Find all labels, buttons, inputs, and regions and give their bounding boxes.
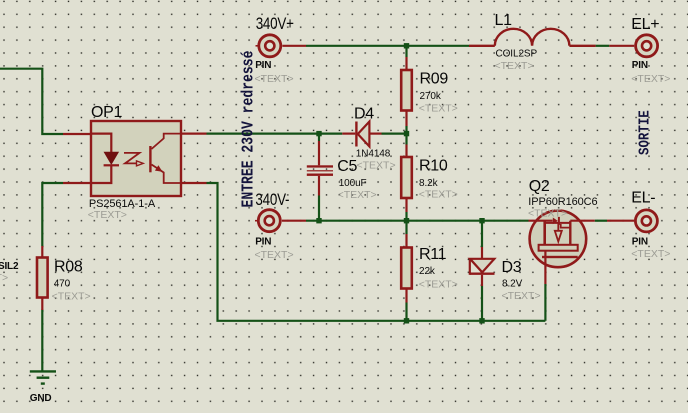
- junction node 340V- / R10 / R11: [404, 218, 409, 223]
- wire OP1 pin4 to node D4/C5: [207, 133, 343, 135]
- svg-text:270k: 270k: [420, 91, 442, 102]
- junction node top rail / R09: [404, 43, 409, 48]
- svg-text:1N4148: 1N4148: [356, 149, 391, 160]
- junction node bottom rail / R11: [404, 318, 409, 323]
- wire OP1 pin2 to R08: [42, 183, 63, 246]
- svg-text:<TEXT>: <TEXT>: [495, 60, 534, 72]
- svg-text:470: 470: [54, 278, 71, 289]
- svg-text:PIN: PIN: [255, 237, 271, 248]
- optocoupler OP1: [63, 121, 207, 196]
- junction node 340V- / C5: [316, 218, 321, 223]
- svg-text:<TEXT>: <TEXT>: [502, 290, 541, 302]
- svg-text:8.2k: 8.2k: [419, 178, 439, 189]
- svg-text:<TEXT>: <TEXT>: [88, 209, 127, 221]
- svg-text:<TEXT>: <TEXT>: [357, 159, 396, 171]
- wire coil to EL+ pin: [596, 45, 610, 47]
- svg-text:100uF: 100uF: [339, 178, 367, 189]
- svg-text:C5: C5: [337, 158, 357, 175]
- svg-text:8.2V: 8.2V: [502, 279, 523, 290]
- wire OP1 pin3 to bottom rail: [207, 183, 546, 321]
- svg-text:R09: R09: [420, 71, 449, 88]
- svg-text:R10: R10: [419, 158, 448, 175]
- svg-text:<TEXT>: <TEXT>: [0, 272, 8, 284]
- svg-text:EL-: EL-: [631, 190, 655, 207]
- svg-text:ENTREE 230V redressé: ENTREE 230V redressé: [238, 51, 258, 208]
- svg-text:<TEXT>: <TEXT>: [631, 73, 670, 85]
- capacitor C5: [307, 141, 333, 196]
- svg-text:<TEXT>: <TEXT>: [255, 249, 294, 261]
- pin EL+: [609, 35, 657, 57]
- svg-text:R11: R11: [419, 246, 447, 263]
- svg-text:L1: L1: [495, 12, 513, 29]
- wire 340V+ rail: [306, 45, 469, 47]
- junction node 340V- / D3: [479, 218, 484, 223]
- junction node bottom rail / D3: [479, 318, 484, 323]
- svg-text:22k: 22k: [419, 266, 436, 277]
- wire D3 bottom: [481, 286, 483, 321]
- mosfet Q2 IPP60R160C6: [529, 211, 595, 284]
- svg-text:<TEXT>: <TEXT>: [528, 208, 567, 220]
- svg-text:PIN: PIN: [632, 60, 648, 71]
- inductor L1 COIL2SP: [469, 29, 596, 46]
- wire R10 bottom: [405, 212, 407, 221]
- svg-text:IPP60R160C6: IPP60R160C6: [528, 196, 597, 208]
- wire C5 top: [318, 134, 320, 141]
- junction node D4 / R09 / R10: [404, 131, 409, 136]
- svg-text:340V+: 340V+: [256, 15, 294, 34]
- svg-text:<TEXT>: <TEXT>: [631, 248, 670, 260]
- wire D4 cathode node to R09/R10 node: [382, 133, 407, 135]
- svg-text:<TEXT>: <TEXT>: [419, 188, 458, 200]
- pin EL-: [607, 210, 657, 232]
- pin 340V+: [256, 35, 307, 57]
- wire 340V- rail: [306, 220, 529, 222]
- wire R09 top: [405, 46, 407, 57]
- wire Q2 drain to EL-: [595, 220, 607, 222]
- svg-text:OP1: OP1: [91, 104, 123, 121]
- wire R08 to ground: [41, 310, 43, 372]
- svg-text:<TEXT>: <TEXT>: [338, 189, 377, 201]
- resistor R09: [401, 57, 412, 126]
- wire R09 bottom node: [405, 126, 407, 145]
- wire R11 bottom: [405, 303, 407, 321]
- wire left input to OP1 pin1: [0, 69, 63, 134]
- svg-text:<TEXT>: <TEXT>: [52, 290, 91, 302]
- resistor R10: [401, 145, 412, 213]
- resistor R08: [37, 246, 48, 310]
- wire R11 top: [405, 221, 407, 234]
- svg-text:PIN: PIN: [632, 237, 648, 248]
- ground: [30, 371, 56, 383]
- svg-text:<TEXT>: <TEXT>: [419, 103, 458, 115]
- junction node D4 / C5: [316, 131, 321, 136]
- svg-text:PS2561A-1-A: PS2561A-1-A: [89, 198, 156, 210]
- diode D4 1N4148: [342, 122, 381, 147]
- svg-text:<TEXT>: <TEXT>: [419, 279, 458, 291]
- wire C5 bottom: [318, 196, 320, 221]
- svg-text:D3: D3: [502, 259, 522, 276]
- svg-text:Q2: Q2: [529, 178, 550, 195]
- svg-text:340V-: 340V-: [255, 191, 289, 210]
- svg-text:R08: R08: [54, 259, 83, 276]
- resistor R11: [401, 234, 412, 303]
- wire D3 top: [481, 221, 483, 247]
- svg-text:D4: D4: [354, 106, 374, 123]
- zener diode D3: [470, 247, 495, 286]
- pin 340V-: [255, 210, 306, 232]
- svg-text:SIL2: SIL2: [0, 261, 19, 272]
- svg-text:<TEXT>: <TEXT>: [255, 73, 294, 85]
- wire Q2 source to rail: [544, 284, 546, 321]
- svg-text:GND: GND: [30, 393, 52, 404]
- svg-text:COIL2SP: COIL2SP: [496, 48, 538, 59]
- svg-text:EL+: EL+: [631, 16, 659, 33]
- svg-text:SORTIE: SORTIE: [638, 110, 654, 155]
